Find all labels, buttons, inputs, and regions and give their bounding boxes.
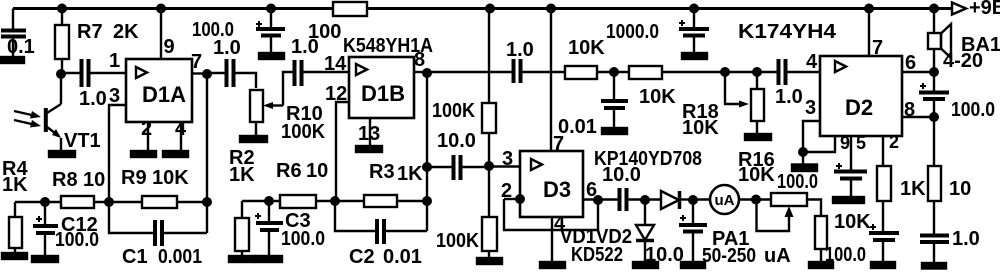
capacitor 1.0 to pin14 xyxy=(295,60,350,86)
capacitor 1.0 to D2 pin4 xyxy=(779,59,821,85)
wire pin 12 D1B xyxy=(336,102,349,201)
wire pin 9 D2 xyxy=(803,136,835,152)
capacitor 10.0 detector coupling xyxy=(620,188,662,211)
svg-text:D3: D3 xyxy=(543,177,571,202)
resistor R2 xyxy=(235,201,249,256)
ground R4 xyxy=(2,253,27,259)
svg-text:D1B: D1B xyxy=(361,81,405,106)
capacitor C3 electrolytic xyxy=(255,201,283,256)
node filter cap junction xyxy=(688,195,698,205)
svg-text:100.0: 100.0 xyxy=(951,99,995,121)
ground R2 xyxy=(229,256,255,262)
node rail junction divider xyxy=(485,4,495,14)
ground R10 xyxy=(240,136,267,142)
svg-text:D1A: D1A xyxy=(142,82,186,107)
node rail junction D2 pin7 xyxy=(864,4,874,14)
ground C12 xyxy=(32,256,58,262)
ground pin4 D1A xyxy=(163,151,188,157)
ground VT1 emitter xyxy=(49,151,75,157)
capacitor 100.0 bootstrap electrolytic xyxy=(869,224,899,262)
node pin7 junction xyxy=(202,69,212,79)
capacitor C2 loop xyxy=(335,201,427,244)
ground 10K meter xyxy=(809,262,833,268)
wire pin 6 D2 output xyxy=(902,71,934,73)
node R18 top junction xyxy=(752,67,762,77)
op-amp U D2 box xyxy=(820,56,902,136)
svg-text:7: 7 xyxy=(553,133,564,155)
node C12 junction xyxy=(40,197,50,207)
svg-text:10.0: 10.0 xyxy=(645,244,684,266)
capacitor 1.0 mid coupling xyxy=(427,59,565,83)
node bias tap junction xyxy=(422,162,432,172)
svg-text:10: 10 xyxy=(306,160,328,182)
capacitor 1.0 zobel xyxy=(920,236,949,264)
svg-text:4: 4 xyxy=(175,118,187,140)
svg-text:0.01: 0.01 xyxy=(383,246,422,268)
node rail junction 100.0 cap xyxy=(266,4,276,14)
svg-text:R8: R8 xyxy=(52,169,78,191)
svg-text:1K: 1K xyxy=(2,174,28,196)
capacitor 1.0 interstage xyxy=(207,59,256,88)
svg-text:R3: R3 xyxy=(369,161,395,183)
ground VD2 xyxy=(633,262,658,268)
node pin8 junction xyxy=(422,68,432,78)
node rail junction R7 xyxy=(57,4,67,14)
svg-text:100.0: 100.0 xyxy=(777,171,818,193)
wire +9V rail xyxy=(13,7,952,10)
svg-text:10.0: 10.0 xyxy=(602,164,641,186)
wire pin 3 D3 xyxy=(489,165,520,167)
capacitor 0.1 input filter xyxy=(1,9,26,58)
op-amp D2 triangle xyxy=(835,61,846,72)
potentiometer R18 xyxy=(751,72,764,134)
op-amp U D1A box xyxy=(126,59,192,122)
op-amp U D1B box xyxy=(349,57,414,118)
ground 1000.0 cap xyxy=(682,53,707,59)
wire right feedback row xyxy=(242,200,427,202)
wire R16 wiper arm xyxy=(757,200,794,232)
node pin3 column junction xyxy=(104,197,114,207)
speaker BA1 xyxy=(928,9,951,73)
svg-text:10K: 10K xyxy=(682,117,719,139)
node divider mid junction xyxy=(484,161,494,171)
wire pin 8 D1B output xyxy=(414,71,427,73)
op-amp D1A triangle xyxy=(136,67,147,78)
node R3 left junction xyxy=(330,196,340,206)
svg-text:KD522: KD522 xyxy=(571,244,623,266)
svg-text:2: 2 xyxy=(889,132,899,152)
svg-text:+9B: +9B xyxy=(969,0,1000,19)
svg-text:12: 12 xyxy=(325,83,347,105)
svg-text:1000.0: 1000.0 xyxy=(606,21,659,43)
svg-text:3: 3 xyxy=(502,148,513,170)
wire pin 8 D2 xyxy=(902,116,934,118)
capacitor 1000.0 rail electrolytic xyxy=(679,9,709,54)
svg-text:4-20: 4-20 xyxy=(943,50,983,72)
svg-text:1.0: 1.0 xyxy=(506,39,534,61)
resistor 1K xyxy=(877,166,891,231)
node VD2 junction xyxy=(640,195,650,205)
potentiometer R16 xyxy=(771,193,807,206)
svg-text:100K: 100K xyxy=(281,121,326,143)
ground pin13 D1B xyxy=(356,146,382,152)
pin 2 line D2 xyxy=(882,136,884,166)
svg-text:6: 6 xyxy=(905,52,916,74)
pin 2 line D1A to ground xyxy=(147,122,149,151)
wire D3 supply column pin7 xyxy=(550,9,552,152)
svg-text:100K: 100K xyxy=(436,230,480,252)
pin 4 line D3 to ground xyxy=(551,217,553,262)
svg-text:13: 13 xyxy=(358,123,380,145)
svg-text:0.1: 0.1 xyxy=(7,36,35,58)
resistor 10K first xyxy=(565,66,597,79)
capacitor C12 electrolytic xyxy=(33,202,58,256)
wire meter to R16 xyxy=(739,198,771,200)
transistor VT1 xyxy=(46,74,61,151)
svg-text:7: 7 xyxy=(191,51,202,73)
svg-text:10K: 10K xyxy=(834,211,871,233)
svg-text:100.0: 100.0 xyxy=(55,229,99,251)
svg-text:10K: 10K xyxy=(738,164,775,186)
node pin2 dot xyxy=(515,194,525,204)
capacitor 100.0 rail electrolytic xyxy=(256,9,285,54)
resistor R8 xyxy=(61,196,94,208)
svg-text:K174YH4: K174YH4 xyxy=(738,21,837,43)
ground pin2 D1A xyxy=(131,151,156,157)
node R16 left junction xyxy=(751,195,761,205)
wire pin 2 D3 xyxy=(504,198,520,200)
meter PA1 xyxy=(710,185,739,214)
svg-text:uA: uA xyxy=(715,192,735,209)
wire pin7 node down to feedback row xyxy=(206,74,208,233)
wire pin8 node down xyxy=(426,72,428,231)
resistor 10K meter shunt xyxy=(807,200,827,263)
ground pin5 cap xyxy=(833,197,864,203)
svg-text:10K: 10K xyxy=(152,167,189,189)
svg-text:1.0: 1.0 xyxy=(775,86,803,108)
resistor 10K second xyxy=(629,66,662,79)
op-amp U D3 box xyxy=(520,151,583,217)
node rail junction speaker xyxy=(929,4,939,14)
wire left feedback row xyxy=(15,201,207,203)
wire 10K to R18 row xyxy=(662,71,777,73)
capacitor C1 loop xyxy=(109,202,207,246)
wire 100K divider column xyxy=(488,9,490,104)
+9B arrow xyxy=(952,3,966,15)
capacitor 10.0 filter electrolytic xyxy=(679,200,707,262)
svg-text:4: 4 xyxy=(806,51,818,73)
node pin6 D2 junction xyxy=(929,67,939,77)
resistor 10 zobel xyxy=(928,117,941,234)
svg-text:2: 2 xyxy=(501,180,512,202)
wire pin 7 D1A output xyxy=(192,72,207,74)
photo arrows into VT1 base xyxy=(14,111,41,128)
svg-text:0.001: 0.001 xyxy=(158,246,202,268)
capacitor 100.0 pin5 electrolytic xyxy=(834,163,867,197)
wire pin 6 D3 output xyxy=(583,198,618,200)
resistor R7 xyxy=(55,9,69,75)
svg-text:9: 9 xyxy=(164,36,175,58)
svg-text:C1: C1 xyxy=(122,246,148,268)
node C3 junction xyxy=(264,196,274,206)
ground pin4 D3 xyxy=(540,262,565,268)
node R3 right junction xyxy=(422,196,432,206)
svg-text:1K: 1K xyxy=(229,164,255,186)
op-amp D3 triangle xyxy=(531,159,542,170)
svg-text:uA: uA xyxy=(764,245,791,267)
svg-text:1K: 1K xyxy=(900,178,926,200)
node rail junction D3 supply xyxy=(546,4,556,14)
resistor 100 on rail xyxy=(333,2,367,16)
ground zobel xyxy=(922,263,946,269)
capacitor 0.01 shunt xyxy=(601,72,628,128)
wire between 10K resistors xyxy=(597,71,629,73)
ground C3 xyxy=(256,256,282,262)
node pin8 D2 junction xyxy=(929,112,939,122)
resistor R9 xyxy=(142,196,177,208)
ground 100K divider xyxy=(477,258,502,264)
wire R10 wiper xyxy=(263,72,293,109)
svg-text:2K: 2K xyxy=(113,21,139,43)
resistor R3 xyxy=(364,195,397,207)
wire D3 feedback loop xyxy=(504,199,598,230)
svg-text:VT1: VT1 xyxy=(64,130,101,152)
capacitor 1.0 collector coupling xyxy=(61,59,126,87)
svg-text:3: 3 xyxy=(805,97,816,119)
svg-text:100K: 100K xyxy=(432,100,476,122)
resistor R4 xyxy=(9,202,22,253)
svg-text:7: 7 xyxy=(872,37,883,59)
ground 100.0 bootstrap xyxy=(871,262,895,268)
svg-text:5: 5 xyxy=(856,133,866,153)
svg-text:1.0: 1.0 xyxy=(79,88,107,110)
svg-text:1K: 1K xyxy=(397,163,423,185)
capacitor 10.0 to D3 input xyxy=(427,155,489,180)
svg-text:100.0: 100.0 xyxy=(281,228,325,250)
node pin3 pin9 junction xyxy=(798,147,808,157)
svg-text:1.0: 1.0 xyxy=(213,37,241,59)
svg-text:R6: R6 xyxy=(276,160,302,182)
potentiometer R10 xyxy=(250,90,263,136)
pin 4 line D1A to ground xyxy=(180,122,182,151)
svg-text:1: 1 xyxy=(109,50,120,72)
svg-text:C2: C2 xyxy=(349,246,375,268)
svg-text:10K: 10K xyxy=(639,86,676,108)
svg-text:2: 2 xyxy=(141,118,152,140)
node rail junction pin9 xyxy=(156,4,166,14)
ground 0.01 cap xyxy=(602,128,627,134)
svg-text:D2: D2 xyxy=(845,95,873,120)
svg-text:8: 8 xyxy=(904,99,915,121)
wire pin 3 D2 xyxy=(803,121,820,164)
svg-text:8: 8 xyxy=(414,49,425,71)
ground R18 xyxy=(745,134,771,140)
wire to meter xyxy=(693,198,710,200)
svg-text:10: 10 xyxy=(949,178,971,200)
svg-text:10.0: 10.0 xyxy=(437,130,476,152)
pin 5 line D2 xyxy=(850,136,852,171)
resistor 100K upper xyxy=(482,103,496,217)
pin 13 line D1B to ground xyxy=(369,118,371,146)
svg-text:50-250: 50-250 xyxy=(702,245,756,267)
wire R18 wiper arm xyxy=(725,72,749,108)
svg-text:3: 3 xyxy=(109,85,120,107)
pin 9 line D1A xyxy=(160,9,162,60)
svg-text:9: 9 xyxy=(840,133,850,153)
resistor R6 xyxy=(280,195,316,208)
pin 7 line D2 xyxy=(868,9,870,57)
node pin6 junction xyxy=(593,195,603,205)
ground 0.1 cap xyxy=(0,57,24,63)
resistor 100K lower xyxy=(482,217,497,258)
node 0.01 junction xyxy=(609,67,619,77)
svg-text:6: 6 xyxy=(586,179,597,201)
diode VD2 shunt xyxy=(636,200,654,262)
capacitor 100.0 output electrolytic xyxy=(919,72,949,117)
svg-text:R9: R9 xyxy=(121,167,147,189)
svg-text:100.0: 100.0 xyxy=(825,244,866,266)
svg-text:10: 10 xyxy=(83,169,105,191)
ground D2 pin3 pin9 xyxy=(792,165,817,172)
ground 100.0 rail cap xyxy=(259,53,284,59)
svg-text:R7: R7 xyxy=(77,21,103,43)
wire pin 3 D1A xyxy=(109,105,126,202)
node collector junction xyxy=(56,69,66,79)
node rail junction 1000.0 xyxy=(689,4,699,14)
node R18 wiper junction xyxy=(720,67,730,77)
node R9 right junction xyxy=(202,197,212,207)
op-amp D1B triangle xyxy=(356,64,367,75)
svg-text:1.0: 1.0 xyxy=(291,36,319,58)
svg-text:1.0: 1.0 xyxy=(952,228,980,250)
ground 10.0 filter cap xyxy=(681,262,705,268)
svg-text:10K: 10K xyxy=(568,37,605,59)
diode VD1 series xyxy=(661,191,693,209)
